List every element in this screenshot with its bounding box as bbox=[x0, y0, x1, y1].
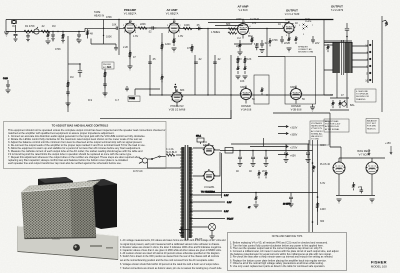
svg-text:TO ADJUST BIAS AND BALANCE CON: TO ADJUST BIAS AND BALANCE CONTROLS bbox=[52, 123, 109, 127]
rectifier V7 bbox=[193, 145, 220, 155]
svg-text:SPEAKER: SPEAKER bbox=[298, 46, 308, 49]
svg-text:4. All resistors shown are ra: 4. All resistors shown are rated 1/2 wat… bbox=[120, 252, 220, 255]
svg-text:TO SPKR AS: TO SPKR AS bbox=[356, 93, 369, 96]
resistor R32 bias bbox=[353, 182, 355, 190]
capacitor C11 bbox=[213, 62, 217, 63]
svg-text:set at the normal listening po: set at the normal listening position and… bbox=[120, 259, 214, 262]
capacitor C3 bbox=[51, 32, 55, 42]
capacitor C20 filter bbox=[238, 151, 243, 167]
svg-text:no signal input present, each: no signal input present, each point meas… bbox=[120, 243, 220, 246]
wire V1 grid drop bbox=[118, 20, 120, 56]
wire psu long vertical a bbox=[312, 140, 314, 232]
capacitor C27 inverter grid bbox=[174, 84, 177, 92]
svg-text:470K: 470K bbox=[106, 16, 112, 19]
capacitor C13 under V3 bbox=[280, 36, 284, 44]
ground phono bbox=[103, 93, 108, 97]
ground input bbox=[4, 32, 9, 36]
resistor R35 psu vertical bbox=[313, 165, 315, 172]
svg-text:HUM LVL: HUM LVL bbox=[367, 128, 377, 130]
wire node drop x162 bbox=[161, 33, 163, 95]
svg-text:V-7 6CA4: V-7 6CA4 bbox=[359, 154, 370, 157]
svg-text:47K: 47K bbox=[187, 47, 192, 50]
svg-text:8. Use only exact replacement: 8. Use only exact replacement parts as l… bbox=[230, 265, 325, 268]
svg-text:SR-1: SR-1 bbox=[196, 136, 202, 138]
ground bias b bbox=[370, 199, 375, 203]
junction dots heater bbox=[190, 192, 257, 220]
svg-text:330K: 330K bbox=[240, 86, 246, 89]
resistor R10 screen bbox=[251, 36, 253, 44]
svg-text:T-2 Z-2979: T-2 Z-2979 bbox=[331, 9, 344, 12]
ground pilot lamp bbox=[210, 236, 215, 240]
capacitor C12 bbox=[260, 40, 265, 52]
svg-text:1.5MEG: 1.5MEG bbox=[211, 31, 220, 34]
capacitor C19 ot lead bbox=[345, 23, 349, 42]
svg-text:OUTPUT: OUTPUT bbox=[331, 5, 343, 9]
svg-text:1.8V: 1.8V bbox=[178, 35, 183, 38]
resistor R7 bbox=[183, 27, 192, 30]
capacitor C21 filter bbox=[251, 151, 256, 167]
label 4line box bbox=[355, 89, 376, 102]
wire OT center taps bbox=[324, 45, 333, 70]
svg-text:EQ NET: EQ NET bbox=[103, 67, 112, 69]
svg-text:VALUES DC: VALUES DC bbox=[311, 135, 323, 138]
resistor R5 plate V1 bbox=[138, 27, 147, 30]
capacitor C22 filter bbox=[264, 151, 269, 167]
tube V6 driver b bbox=[291, 86, 302, 104]
svg-text:220: 220 bbox=[236, 45, 241, 48]
tube V1A triode bbox=[123, 20, 135, 36]
resistor R1 bbox=[24, 30, 34, 33]
resistor R25 plate T2 bbox=[161, 42, 163, 51]
wire B+ line bbox=[220, 150, 313, 152]
capacitor C26 psu bbox=[289, 193, 294, 207]
AC interlock symbol bbox=[382, 20, 388, 26]
label bias parts bbox=[350, 104, 391, 189]
label voltage box bbox=[310, 121, 329, 145]
tube V2B phase inverter bbox=[172, 89, 182, 106]
wire bias bottoms bbox=[336, 195, 375, 197]
resistor R21 ot tap bbox=[327, 44, 329, 52]
svg-text:R1 470K: R1 470K bbox=[25, 25, 35, 28]
capacitor C6 bbox=[255, 43, 259, 50]
svg-text:140V: 140V bbox=[320, 208, 326, 211]
svg-text:HEAD IN: HEAD IN bbox=[94, 15, 104, 18]
speaker terminal strip bbox=[368, 40, 373, 83]
wire OT bottom drops bbox=[337, 73, 347, 108]
resistor R19 bbox=[269, 38, 271, 46]
wire psu rail y144 bbox=[231, 143, 309, 145]
svg-text:6.8K: 6.8K bbox=[254, 43, 259, 46]
label OT terminals bbox=[365, 45, 368, 83]
svg-text:.05: .05 bbox=[152, 58, 156, 61]
svg-text:NOTE AND SERVICE TIPS: NOTE AND SERVICE TIPS bbox=[272, 235, 303, 238]
svg-text:.05: .05 bbox=[196, 24, 200, 27]
svg-text:270: 270 bbox=[358, 186, 363, 189]
svg-text:1M: 1M bbox=[70, 76, 73, 79]
svg-text:EZ81: EZ81 bbox=[203, 144, 210, 147]
wire feedback vertical bbox=[230, 55, 232, 119]
junction dots B+ bbox=[239, 150, 267, 152]
pot R2 volume bbox=[34, 27, 39, 34]
svg-text:PILOT: PILOT bbox=[227, 219, 234, 221]
AC plug P1 bbox=[139, 158, 148, 164]
wire bottom separator bbox=[100, 118, 231, 120]
brand title bbox=[371, 259, 387, 268]
resistor R22 feedback bbox=[261, 87, 263, 95]
resistor R16 grid T3 bbox=[228, 32, 237, 34]
svg-text:OUTPUT: OUTPUT bbox=[286, 9, 298, 13]
svg-text:V-2B 1/2 6AN8: V-2B 1/2 6AN8 bbox=[169, 109, 186, 112]
svg-text:ADJUST BIAS: ADJUST BIAS bbox=[325, 120, 339, 123]
wire psu right vertical bbox=[221, 153, 223, 198]
label pin numbers V3 V4 bbox=[282, 25, 314, 37]
rectifier V8 bbox=[193, 152, 220, 181]
tube V5 driver a bbox=[241, 86, 252, 104]
wire output plate bus (thick) bbox=[285, 19, 333, 21]
svg-text:330K: 330K bbox=[290, 86, 296, 89]
svg-text:20 MFD: 20 MFD bbox=[283, 204, 291, 206]
svg-text:100K: 100K bbox=[184, 24, 190, 27]
svg-text:V-2 6U8: V-2 6U8 bbox=[238, 9, 248, 12]
svg-text:V-1 6BQ7A: V-1 6BQ7A bbox=[166, 13, 179, 16]
ground left mid bbox=[66, 103, 71, 107]
resistor R11 bbox=[288, 36, 290, 44]
svg-text:AF AMP: AF AMP bbox=[167, 8, 178, 12]
cluster V2 bias parts bbox=[238, 40, 243, 55]
wire feedback tap bbox=[266, 29, 268, 57]
svg-text:150V: 150V bbox=[236, 58, 242, 61]
svg-text:6. Voltages shown should hold: 6. Voltages shown should hold within 10 … bbox=[120, 263, 220, 266]
resistor R31 bleeder bbox=[265, 170, 267, 178]
resistor R8 grid bbox=[191, 44, 193, 53]
wire primary bottom bbox=[148, 162, 184, 168]
svg-text:2.2K: 2.2K bbox=[123, 46, 128, 49]
resistor R15 bbox=[161, 74, 163, 82]
capacitor C24 filter bbox=[306, 144, 311, 162]
resistor R20 pre-tube bbox=[87, 29, 89, 39]
resistor R6 cathode V1 bbox=[129, 50, 131, 59]
svg-text:220K: 220K bbox=[236, 18, 242, 21]
resistor stack R17 R18 bbox=[236, 56, 248, 79]
tube V1B triode bbox=[169, 20, 179, 38]
svg-text:replacing any filter capacitor: replacing any filter capacitor; always c… bbox=[8, 158, 128, 162]
svg-text:5. Re-check the bias after a: 5. Re-check the bias after a thirty minu… bbox=[230, 256, 333, 259]
photo: amplifier product photograph bbox=[18, 177, 119, 260]
capacitor C14 under V4 bbox=[311, 36, 315, 44]
svg-text:IN: IN bbox=[12, 25, 15, 28]
resistor R33 drop bbox=[254, 193, 259, 208]
svg-text:470: 470 bbox=[252, 22, 257, 25]
wire heater bus b bbox=[215, 25, 243, 27]
wire stage3-stage4 coupling bbox=[249, 28, 284, 30]
capacitor C8 phono bbox=[103, 79, 107, 89]
tube pin clutter marks bbox=[124, 21, 302, 100]
resistor R24 bus bbox=[46, 32, 51, 44]
fuse F1 bbox=[160, 154, 183, 157]
tube V2A pentode bbox=[238, 20, 249, 39]
junction dots pre-tube bbox=[103, 28, 104, 37]
svg-text:2. Resistor values are shown: 2. Resistor values are shown in ohms; th… bbox=[120, 246, 222, 249]
wire phono drop x105 bbox=[104, 69, 106, 95]
resistor R13 left mid bbox=[67, 80, 69, 89]
power transformer T1 bbox=[180, 145, 193, 240]
label ot bottom bbox=[330, 94, 344, 97]
label stage voltages bbox=[133, 35, 320, 101]
svg-text:BALANCE: BALANCE bbox=[367, 120, 377, 123]
tube V10 bias rect b bbox=[366, 158, 378, 180]
resistor R34 on vertical bbox=[317, 202, 319, 212]
wire pre-tube vertical bbox=[103, 20, 105, 45]
resistor R30 bleeder bbox=[258, 170, 260, 178]
wire bus to V1 grid bbox=[85, 28, 125, 31]
svg-text:220K: 220K bbox=[140, 23, 146, 26]
svg-text:6.3V: 6.3V bbox=[224, 211, 229, 213]
ground V3 chain bbox=[287, 48, 292, 52]
svg-text:PLATE: PLATE bbox=[305, 20, 312, 23]
svg-text:.02: .02 bbox=[41, 25, 45, 28]
tube V3 output a bbox=[284, 22, 294, 37]
capacitor C7 left mid bbox=[66, 89, 70, 97]
svg-text:CONNECT AS: CONNECT AS bbox=[298, 48, 312, 51]
svg-text:117V AC: 117V AC bbox=[133, 170, 143, 173]
svg-text:BAL: BAL bbox=[350, 104, 355, 107]
text layer: instruction and note blocks bbox=[4, 122, 388, 271]
choke L1 bbox=[225, 148, 233, 154]
wire node drop x195 bbox=[194, 55, 196, 95]
svg-text:TO HEATERS: TO HEATERS bbox=[201, 191, 215, 194]
wire node drop x215 bbox=[214, 55, 216, 95]
output transformer T2 windings bbox=[324, 40, 352, 75]
capacitor C29 bus bbox=[77, 32, 82, 43]
svg-text:TAKEN WITH: TAKEN WITH bbox=[311, 125, 324, 128]
svg-text:+270V: +270V bbox=[290, 147, 298, 150]
ground bias a bbox=[337, 199, 342, 203]
svg-text:SHOWN 8 OHM: SHOWN 8 OHM bbox=[298, 52, 313, 54]
photo amplifier chassis bbox=[18, 177, 119, 260]
label bias box a bbox=[324, 119, 349, 132]
svg-text:1K: 1K bbox=[295, 22, 298, 25]
wire bias feed drop bbox=[330, 113, 341, 162]
wire psu main vertical bbox=[308, 140, 310, 232]
capacitor C1 bbox=[14, 25, 18, 41]
capacitor C25 bias bbox=[360, 187, 364, 193]
junction dots bus extra bbox=[27, 31, 79, 32]
svg-text:10K: 10K bbox=[240, 80, 245, 83]
resistor R3 bbox=[41, 30, 50, 33]
wire right section drop x231 bbox=[230, 110, 232, 119]
svg-text:C: C bbox=[366, 66, 368, 69]
wire psu long vertical b bbox=[317, 140, 319, 225]
svg-text:.02: .02 bbox=[148, 31, 152, 34]
label pin numbers V2A bbox=[235, 21, 252, 35]
svg-text:1M: 1M bbox=[52, 25, 55, 28]
wire input left drop bbox=[5, 20, 7, 32]
svg-text:MODEL 100: MODEL 100 bbox=[371, 265, 387, 269]
bias arrow marks bbox=[368, 146, 392, 155]
resistor R4 bbox=[61, 32, 65, 43]
pilot lamp I1 bbox=[191, 224, 216, 236]
svg-text:V-3B 6U8: V-3B 6U8 bbox=[291, 109, 302, 112]
svg-text:1.6V: 1.6V bbox=[133, 35, 138, 38]
label pin numbers V1B bbox=[167, 21, 182, 34]
tube pin clutter psu bbox=[203, 143, 378, 179]
ground feedback bbox=[310, 104, 315, 111]
svg-text:22V: 22V bbox=[315, 42, 320, 45]
svg-text:AC LINE NO: AC LINE NO bbox=[311, 130, 323, 133]
wire feedback top link bbox=[258, 56, 285, 58]
svg-text:V-3A 6U8: V-3A 6U8 bbox=[241, 109, 252, 112]
left instruction block bbox=[8, 123, 166, 165]
capacitor C16 grid bbox=[116, 27, 117, 30]
svg-text:6.3V: 6.3V bbox=[320, 182, 325, 185]
svg-text:3. Capacitor values of less t: 3. Capacitor values of less than 1 are g… bbox=[120, 249, 222, 252]
paper scan noise bbox=[0, 0, 1, 1]
svg-text:VOLTAGES: VOLTAGES bbox=[311, 122, 323, 125]
label psu column voltages bbox=[320, 144, 331, 223]
capacitor C28 left branch bbox=[78, 63, 82, 77]
svg-text:68K: 68K bbox=[226, 23, 231, 26]
svg-text:1/2 6U8: 1/2 6U8 bbox=[250, 18, 259, 21]
wire right border drop bbox=[381, 16, 383, 112]
component layer: amplifier section bbox=[3, 19, 388, 110]
svg-text:V-3 V-4 7189: V-3 V-4 7189 bbox=[285, 13, 300, 16]
svg-text:1K: 1K bbox=[278, 23, 281, 26]
svg-text:1. AC voltage measurements, D: 1. AC voltage measurements, DC values an… bbox=[120, 239, 226, 242]
bottom center list bbox=[120, 239, 226, 270]
svg-text:470K: 470K bbox=[55, 48, 61, 51]
svg-text:7. Socket connections are sho: 7. Socket connections are shown as botto… bbox=[120, 267, 222, 270]
wire left mid drop x68 bbox=[67, 36, 69, 112]
wire row2 tap bbox=[135, 89, 160, 95]
resistor R9 bbox=[228, 28, 237, 31]
svg-text:5. Switch S1 is drawn in the: 5. Switch S1 is drawn in the OFF positio… bbox=[120, 255, 220, 258]
capacitor C10 bbox=[194, 62, 198, 63]
svg-text:AT NO SIGNAL: AT NO SIGNAL bbox=[325, 128, 340, 131]
label box treble net bbox=[128, 96, 140, 102]
wire top B+ bus bbox=[6, 19, 290, 21]
wire bias tube drops bbox=[339, 180, 372, 195]
svg-text:+65V: +65V bbox=[290, 155, 296, 158]
svg-text:68K: 68K bbox=[180, 89, 185, 92]
label phono box bbox=[102, 62, 114, 69]
wire feedback small box bbox=[254, 75, 269, 104]
transformer bottom parts bbox=[179, 227, 190, 236]
svg-text:6.3V: 6.3V bbox=[227, 202, 232, 204]
wire bias tubes top bbox=[339, 157, 385, 159]
switch SW1 bbox=[148, 156, 161, 160]
svg-text:6.3V: 6.3V bbox=[224, 195, 229, 197]
wire pre-tube lower link bbox=[91, 39, 116, 48]
svg-text:C-7: C-7 bbox=[115, 99, 120, 102]
svg-text:1200: 1200 bbox=[165, 43, 171, 46]
input jack J1 bbox=[12, 20, 17, 24]
svg-text:.01: .01 bbox=[76, 38, 80, 41]
svg-text:PLUS 40: PLUS 40 bbox=[320, 163, 331, 166]
svg-text:G: G bbox=[366, 73, 368, 76]
wire speaker line y113 bbox=[273, 112, 330, 114]
ground V1 cathode bbox=[128, 66, 133, 70]
wire stage2-stage3 coupling bbox=[179, 28, 237, 30]
svg-text:470K: 470K bbox=[272, 39, 278, 42]
wire T3 cathode link bbox=[234, 43, 252, 45]
junction dots input bus bbox=[52, 31, 63, 32]
junction dots bus rows bbox=[118, 19, 267, 96]
svg-text:10K: 10K bbox=[112, 24, 117, 27]
wire heater bus a bbox=[208, 22, 289, 24]
wire OT primary drop bbox=[324, 20, 333, 96]
svg-text:R-9: R-9 bbox=[88, 99, 93, 102]
notes box bbox=[228, 233, 347, 271]
svg-text:22V: 22V bbox=[284, 42, 289, 45]
junction dot node x208 bbox=[207, 28, 209, 30]
svg-text:12K: 12K bbox=[247, 58, 252, 61]
resistor R23 cathode T2 bbox=[172, 37, 177, 52]
wire left branch stub bbox=[68, 63, 80, 65]
capacitor C15 row2 bbox=[125, 86, 129, 91]
svg-text:.02: .02 bbox=[264, 42, 268, 45]
svg-text:300V: 300V bbox=[320, 144, 326, 147]
capacitor C5 coupling bbox=[196, 27, 202, 31]
capacitor C2 bbox=[26, 33, 30, 42]
svg-text:V-1 6BQ7A: V-1 6BQ7A bbox=[124, 13, 137, 16]
label speaker box bbox=[298, 46, 313, 54]
junction dots psu verticals bbox=[312, 162, 319, 223]
capacitor C23 filter bbox=[284, 144, 289, 162]
wire second-row signal bus bbox=[150, 94, 330, 96]
svg-text:AF AMP: AF AMP bbox=[238, 5, 249, 9]
svg-text:300: 300 bbox=[320, 220, 325, 223]
wire feedback loop box bbox=[285, 57, 316, 105]
capacitor C4 coupling bbox=[149, 26, 156, 30]
pin cross marks V3 bbox=[303, 24, 308, 30]
label bias box b bbox=[366, 119, 379, 134]
wire input bus bbox=[6, 31, 85, 33]
tube V9 bias rect a bbox=[333, 158, 345, 180]
svg-text:+310V: +310V bbox=[290, 127, 298, 130]
svg-text:PREAMP: PREAMP bbox=[124, 8, 136, 12]
wire V1 cathode drop bbox=[129, 33, 131, 66]
svg-text:TONE: TONE bbox=[129, 98, 135, 100]
svg-text:.02: .02 bbox=[217, 58, 221, 61]
svg-text:ACROSS R-40: ACROSS R-40 bbox=[325, 125, 340, 128]
left instruction block border bbox=[4, 122, 167, 169]
resistor R14 phono bbox=[104, 70, 106, 79]
bias network under OT bbox=[330, 98, 349, 110]
wire interstage node drop x208 bbox=[207, 29, 209, 96]
svg-text:85V: 85V bbox=[248, 35, 253, 38]
svg-text:SIGNAL ALL: SIGNAL ALL bbox=[311, 132, 324, 135]
svg-text:V-2: V-2 bbox=[237, 37, 241, 40]
svg-text:PHASING: PHASING bbox=[356, 98, 366, 101]
svg-text:SLO-BLO: SLO-BLO bbox=[166, 151, 177, 154]
svg-text:+305V: +305V bbox=[290, 134, 298, 137]
capacitor C9 bbox=[148, 62, 152, 63]
svg-text:PHONO: PHONO bbox=[103, 64, 111, 66]
svg-text:TO GND: TO GND bbox=[311, 139, 320, 141]
svg-text:+15V: +15V bbox=[385, 142, 391, 145]
svg-text:100K: 100K bbox=[106, 36, 112, 39]
wire layer: main schematic wiring bbox=[6, 16, 382, 232]
component layer: power supply section bbox=[139, 113, 392, 240]
voltage arrows column bbox=[250, 125, 288, 155]
wire node drop x150 bbox=[149, 55, 151, 95]
wire heater taps bbox=[191, 195, 225, 219]
svg-text:V-6 EZ81: V-6 EZ81 bbox=[204, 186, 215, 189]
label pin numbers V1A bbox=[123, 21, 138, 34]
capacitor C17 down bbox=[114, 48, 118, 51]
capacitor C18 left edge bbox=[3, 78, 11, 93]
svg-text:C-18: C-18 bbox=[3, 78, 9, 80]
